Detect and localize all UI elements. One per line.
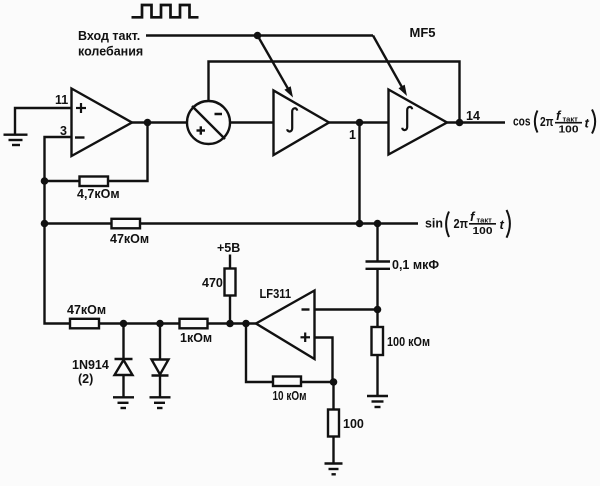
svg-text:t: t [500,217,505,232]
clock input wire [146,34,373,36]
node: comparator output junction [242,320,250,328]
ground (diode D2) [150,397,171,408]
resistor R3 47kOm [70,319,99,329]
wire: left rail down [45,181,71,324]
svg-text:cos: cos [513,114,531,129]
wire: feedback line [45,180,80,182]
wire: clock arrow to integrator 1 [258,36,294,98]
node: left rail junction [41,220,49,228]
resistor R4 1kOm [180,319,208,329]
U5 minus sign [302,308,310,310]
wire: +5V supply lead [229,255,231,269]
op-amp U1 (pins 11,3) [72,89,133,157]
svg-text:14: 14 [466,109,480,123]
svg-text:f: f [556,108,562,123]
node pin 14 [456,119,464,127]
formula: sin output [425,209,510,238]
U1 minus input sign [75,136,85,138]
summer plus sign [197,126,206,134]
svg-text:колебания: колебания [78,45,143,59]
node: diode D2 junction [156,320,164,328]
wire: feedback right [108,123,148,182]
wire: lower rail [99,322,256,324]
summing junction diagonal [192,106,225,139]
svg-text:f: f [470,209,476,224]
svg-text:t: t [585,116,590,131]
resistor R6 100 kOm [372,327,384,355]
wire: 100 to ground [332,437,334,463]
wire: pin 11 to ground [15,108,72,135]
svg-text:47кОм: 47кОм [110,232,149,246]
svg-text:2π: 2π [540,114,554,129]
node: sin line junction A [356,220,364,228]
diode D1 1N914 [115,324,133,398]
node: minus input junction [374,306,382,314]
wire: U5 minus input [315,308,378,310]
wire: summer to integrator 1 [230,121,274,123]
wire: integrator1 to integrator2 [329,121,389,123]
U1 plus input sign [76,103,86,113]
resistor R7 10 kOm [273,377,301,387]
wire: 470 to rail [229,296,231,324]
formula: cos output [513,108,595,136]
svg-text:100 кОм: 100 кОм [387,335,430,349]
node: U1 output junction [144,119,152,127]
wire: node 1 down to sin line [358,123,360,224]
wire: summer top to feedback [209,62,460,123]
svg-text:100: 100 [559,124,579,136]
svg-text:100: 100 [343,417,364,431]
svg-text:2π: 2π [454,216,469,231]
diode D2 1N914 [152,324,169,398]
svg-text:(2): (2) [78,372,93,386]
wire: sin output line [45,222,112,224]
node: 470 junction [226,320,234,328]
resistor R1 4,7 kOm [80,177,109,187]
wire: 100k to ground [376,355,378,396]
integrator 2 [389,90,448,155]
svg-text:0,1 мкФ: 0,1 мкФ [392,258,439,272]
svg-text:470: 470 [202,276,223,290]
clock waveform symbol [132,5,199,17]
wire: U1 output [132,121,187,123]
integral sign U3 [287,108,297,131]
svg-text:LF311: LF311 [260,287,292,301]
node 1 [356,119,364,127]
wire: cap branch down [376,224,378,262]
wire: 10k right leg [301,381,334,383]
svg-text:3: 3 [60,124,67,138]
svg-text:+5В: +5В [217,241,240,255]
capacitor C1 0,1 mkF [366,262,391,269]
svg-text:10 кОм: 10 кОм [273,389,307,403]
U5 plus sign [301,333,311,343]
wire: cap to minus node [376,269,378,327]
wire: U5 plus input [315,338,333,383]
node: sin line junction B [374,220,382,228]
summing junction U2 [187,101,230,144]
resistor R8 100 [328,410,339,437]
ground (op-amp U1 pin 11) [4,135,28,145]
summer minus sign [215,113,223,116]
node: plus input junction [330,378,338,386]
svg-text:1: 1 [349,128,356,142]
svg-text:sin: sin [425,216,443,231]
svg-text:4,7кОм: 4,7кОм [77,187,120,201]
ground (R8 100) [325,464,343,475]
wire: clock arrow to integrator 2 [373,36,407,97]
svg-text:1кОм: 1кОм [180,331,212,345]
wire: feedback 10k left leg [246,324,273,383]
integral sign U4 [402,107,412,130]
wire: pin 3 input [45,137,72,181]
node junction at feedback left [41,177,49,185]
resistor R2 47 kOm [112,219,141,229]
resistor R5 470 [225,269,236,296]
svg-text:MF5: MF5 [410,26,436,40]
node: clock junction [254,32,262,40]
wire: sin line right part [140,222,418,224]
svg-text:11: 11 [55,93,68,107]
svg-text:Вход такт.: Вход такт. [78,29,140,43]
svg-text:1N914: 1N914 [72,358,109,372]
wire: 100 resistor top lead [332,382,334,410]
wire: output pin 14 [447,121,505,123]
node: diode D1 junction [120,320,128,328]
svg-text:100: 100 [473,225,493,237]
comparator U5 LF311 [256,291,315,360]
ground (R6 100kOm) [367,396,388,407]
ground (diode D1) [113,397,134,408]
svg-text:47кОм: 47кОм [67,303,106,317]
integrator 1 [274,91,330,156]
